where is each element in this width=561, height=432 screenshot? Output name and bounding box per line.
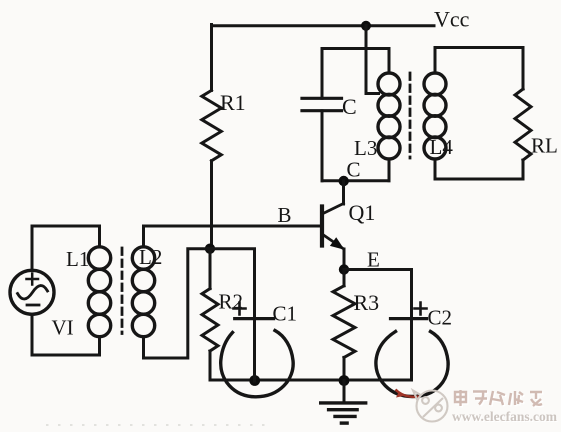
wire base bbox=[144, 225, 321, 228]
faint erased caption bbox=[46, 424, 266, 426]
transformer core (input) bbox=[121, 248, 124, 334]
wire RL to L4 bottom bbox=[435, 178, 523, 181]
wire tank bottom edge bbox=[322, 179, 389, 182]
node ground junction bbox=[339, 375, 350, 386]
transformer core (output) bbox=[409, 73, 412, 158]
source VI bbox=[10, 270, 54, 314]
inductor L2 bbox=[142, 226, 145, 247]
svg-text:R1: R1 bbox=[220, 90, 246, 115]
capacitor C2 bbox=[391, 317, 427, 320]
watermark text elecfans bbox=[456, 391, 543, 407]
svg-text:RL: RL bbox=[531, 134, 558, 158]
node bias junction bbox=[205, 244, 215, 254]
svg-text:L1: L1 bbox=[66, 247, 89, 271]
wire tank top edge bbox=[322, 47, 389, 50]
svg-text:VI: VI bbox=[52, 316, 74, 340]
svg-text:Vcc: Vcc bbox=[434, 7, 470, 32]
svg-text:C: C bbox=[342, 94, 357, 119]
svg-text:L4: L4 bbox=[430, 135, 454, 159]
wire VI bottom to L1 bbox=[32, 314, 100, 355]
wire bottom rail bbox=[210, 379, 412, 382]
wire L4 to RL top bbox=[435, 46, 523, 49]
svg-text:C2: C2 bbox=[428, 306, 453, 330]
node emitter E bbox=[339, 264, 349, 274]
capacitor C bbox=[321, 49, 324, 99]
wire R1 bottom lead to bias node bbox=[210, 161, 213, 249]
ground bbox=[343, 381, 346, 403]
inductor L1 bbox=[88, 247, 110, 269]
inductor L4 bbox=[434, 48, 437, 74]
wire VI top to L1 bbox=[32, 226, 100, 270]
wire RL bottom lead bbox=[522, 160, 525, 179]
inductor L3 bbox=[388, 49, 391, 74]
node Vcc junction bbox=[361, 21, 371, 31]
svg-text:C: C bbox=[347, 158, 361, 182]
wire R1 top lead bbox=[210, 25, 213, 91]
resistor R3 bbox=[343, 270, 346, 286]
svg-text:B: B bbox=[278, 203, 292, 227]
wire bias node to L2 bottom bbox=[144, 249, 211, 358]
watermark red trace on C2 bbox=[396, 390, 421, 397]
resistor R1 bbox=[202, 90, 222, 160]
svg-text:Q1: Q1 bbox=[349, 200, 376, 225]
node collector C bbox=[339, 176, 349, 186]
transistor Q1 bbox=[320, 207, 324, 246]
svg-text:E: E bbox=[367, 248, 380, 272]
svg-text:C1: C1 bbox=[273, 302, 298, 326]
node C1 bottom bbox=[249, 375, 260, 386]
svg-text:R3: R3 bbox=[354, 290, 380, 315]
capacitor C1 bbox=[210, 249, 255, 381]
svg-text:L2: L2 bbox=[139, 245, 162, 269]
svg-text:L3: L3 bbox=[354, 136, 377, 160]
watermark key icon bbox=[413, 391, 448, 422]
wire emitter to C2 bbox=[344, 268, 412, 271]
wire Vcc rail bbox=[212, 24, 435, 27]
resistor RL bbox=[515, 89, 531, 160]
svg-text:www.elecfans.com: www.elecfans.com bbox=[452, 409, 558, 424]
wire Vcc tap to L3 bbox=[366, 26, 379, 94]
resistor R2 bbox=[209, 249, 212, 289]
wire RL top lead bbox=[522, 48, 525, 90]
